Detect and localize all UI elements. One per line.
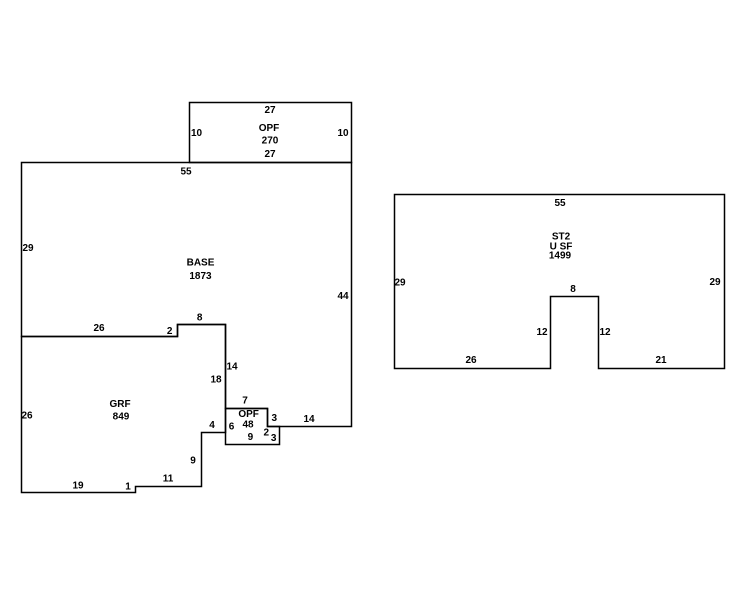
svg-text:12: 12 bbox=[599, 327, 611, 338]
svg-text:29: 29 bbox=[709, 277, 721, 288]
svg-text:849: 849 bbox=[113, 411, 130, 422]
svg-text:1873: 1873 bbox=[189, 271, 212, 282]
svg-text:14: 14 bbox=[303, 414, 315, 425]
svg-text:48: 48 bbox=[242, 420, 254, 431]
svg-text:26: 26 bbox=[465, 355, 477, 366]
svg-text:3: 3 bbox=[272, 413, 278, 424]
svg-text:29: 29 bbox=[22, 243, 34, 254]
svg-text:9: 9 bbox=[190, 455, 196, 466]
OPF 270 box outline bbox=[190, 103, 352, 163]
svg-text:4: 4 bbox=[209, 420, 215, 431]
svg-text:1: 1 bbox=[125, 481, 131, 492]
GRF outline bbox=[22, 325, 226, 493]
svg-text:18: 18 bbox=[210, 374, 222, 385]
svg-text:BASE: BASE bbox=[187, 257, 215, 268]
svg-text:GRF: GRF bbox=[109, 399, 130, 410]
svg-text:3: 3 bbox=[271, 433, 277, 444]
ST2 outline bbox=[395, 195, 725, 369]
svg-text:2: 2 bbox=[167, 326, 173, 337]
svg-text:9: 9 bbox=[248, 432, 254, 443]
svg-text:11: 11 bbox=[163, 473, 174, 484]
svg-text:12: 12 bbox=[536, 327, 548, 338]
svg-text:6: 6 bbox=[229, 422, 235, 433]
svg-text:29: 29 bbox=[394, 277, 406, 288]
BASE outline bbox=[22, 163, 352, 427]
svg-text:8: 8 bbox=[197, 312, 203, 323]
svg-text:OPF: OPF bbox=[259, 123, 280, 134]
svg-text:27: 27 bbox=[264, 105, 276, 116]
svg-text:19: 19 bbox=[72, 480, 84, 491]
svg-text:270: 270 bbox=[262, 135, 279, 146]
svg-text:8: 8 bbox=[570, 284, 576, 295]
svg-text:10: 10 bbox=[337, 128, 349, 139]
svg-text:44: 44 bbox=[337, 291, 349, 302]
svg-text:26: 26 bbox=[93, 323, 105, 334]
svg-text:7: 7 bbox=[242, 395, 248, 406]
svg-text:1499: 1499 bbox=[549, 250, 572, 261]
svg-text:14: 14 bbox=[226, 361, 238, 372]
svg-text:55: 55 bbox=[180, 166, 192, 177]
svg-text:2: 2 bbox=[264, 427, 270, 438]
svg-text:OPF: OPF bbox=[238, 409, 259, 420]
svg-text:10: 10 bbox=[191, 128, 203, 139]
OPF 48 box outline bbox=[226, 409, 280, 445]
svg-text:55: 55 bbox=[554, 198, 566, 209]
svg-text:21: 21 bbox=[655, 355, 667, 366]
svg-text:27: 27 bbox=[264, 149, 276, 160]
svg-text:26: 26 bbox=[21, 410, 33, 421]
